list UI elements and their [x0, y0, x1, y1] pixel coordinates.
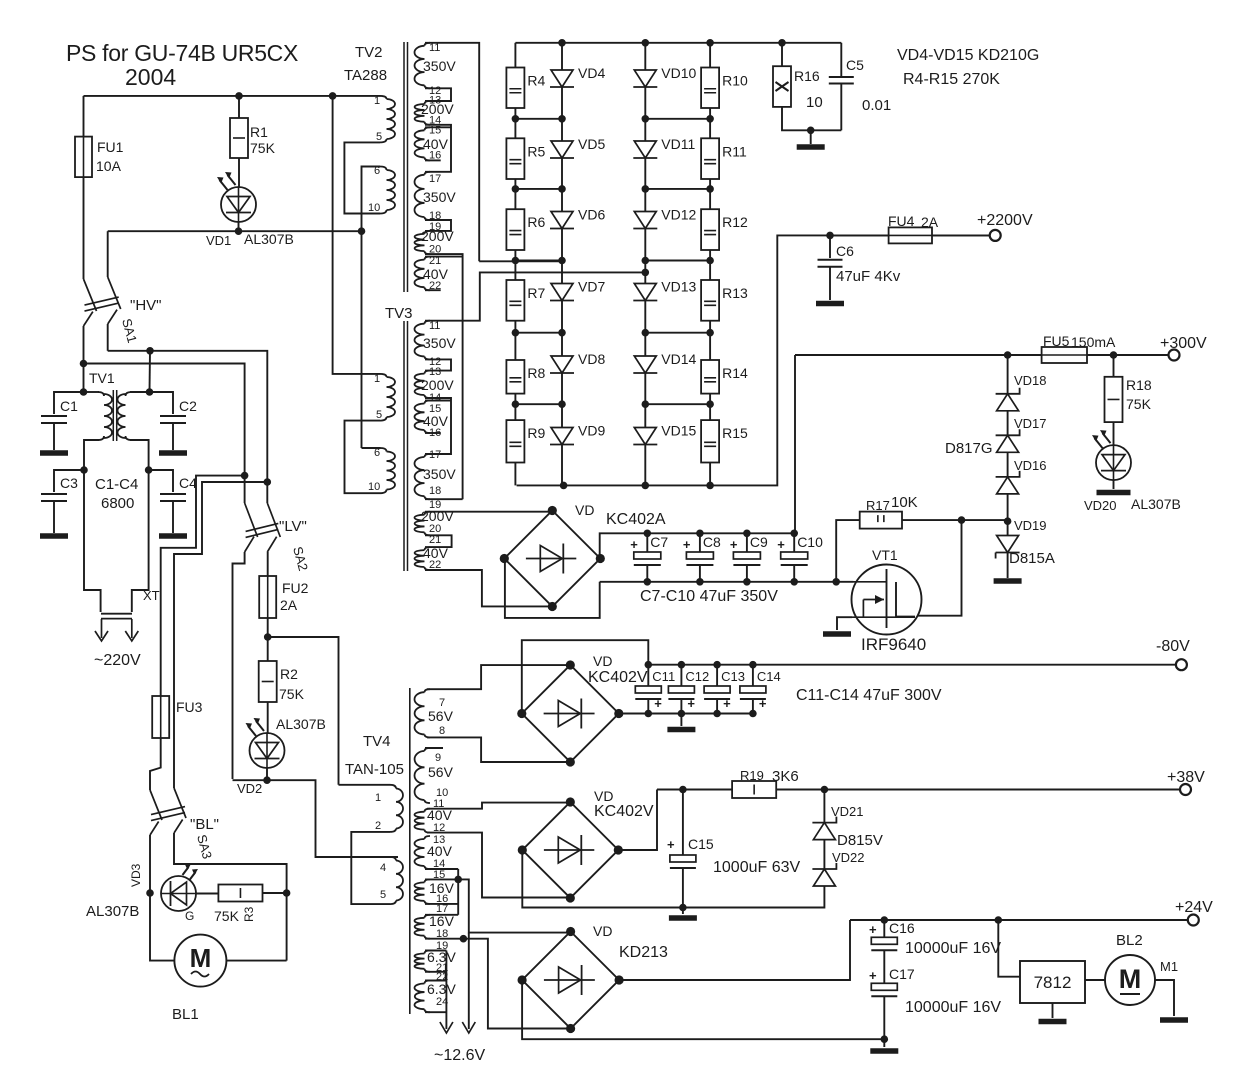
capacitor C8: [686, 552, 713, 565]
wire TV4 pin17: [425, 914, 458, 916]
wire VD3 to R3: [196, 893, 218, 895]
wire TV4 pin15 to KD213: [458, 879, 570, 932]
wire SA2 left stub: [244, 476, 246, 503]
node top bus x=645.3: [642, 39, 650, 47]
svg-text:10K: 10K: [891, 494, 918, 511]
fuse FU5: [1042, 347, 1087, 363]
wire C3 bottom: [53, 501, 55, 533]
diode VD14: [633, 356, 657, 373]
wire C12 top stem: [680, 665, 682, 686]
wire TV1 right winding bottom: [130, 440, 149, 470]
resistor R11: [701, 138, 719, 179]
wire TV4 pin10-11 to bridge: [427, 803, 570, 809]
TV4 winding 11-12 40V: [414, 812, 424, 830]
TV4 primary winding 1-2: [396, 789, 403, 829]
terminal -80V: [1176, 659, 1187, 670]
node R3 right: [283, 889, 291, 897]
node row5 x=645.3: [642, 400, 650, 408]
svg-text:~220V: ~220V: [94, 652, 141, 669]
wire R10 bottom lead: [709, 108, 711, 119]
wire C3 top: [54, 470, 84, 492]
transformer TV1 core: [113, 390, 116, 441]
svg-text:M: M: [1119, 964, 1142, 994]
wire R17 right: [902, 519, 1008, 521]
resistor R5: [506, 138, 524, 179]
wire TV4 pin1: [339, 784, 391, 786]
svg-text:C10: C10: [797, 534, 823, 550]
svg-text:+: +: [759, 696, 767, 711]
resistor R9: [506, 420, 524, 462]
wire FU2 to R2: [267, 618, 269, 661]
TV2 winding 17-18 350V caps: [425, 172, 431, 220]
svg-text:R8: R8: [527, 365, 545, 381]
wire VD11 top lead: [644, 119, 646, 141]
wire C8 top stem: [699, 533, 701, 552]
capacitor C17: [871, 983, 897, 996]
TV3 winding 15-16 40V: [414, 404, 424, 431]
capacitor C4: [160, 494, 186, 501]
wire R7 top lead: [514, 261, 516, 281]
wire VD14 bottom lead: [644, 373, 646, 404]
svg-text:VD10: VD10: [661, 65, 696, 81]
node row4 x=562: [558, 329, 566, 337]
node top bus x=710.1: [706, 39, 714, 47]
resistor R13: [701, 280, 719, 321]
svg-text:TV2: TV2: [355, 44, 383, 61]
wire C16-C17: [883, 950, 885, 983]
diode VD12: [633, 212, 657, 229]
wire VD2 node across: [233, 780, 399, 857]
svg-text:D817G: D817G: [945, 440, 993, 457]
svg-text:R2: R2: [280, 666, 298, 682]
svg-text:TA288: TA288: [344, 67, 387, 84]
node wire2 / VD10 col: [642, 269, 650, 277]
svg-text:C6: C6: [836, 243, 854, 259]
TV2 winding 17-18 350V: [414, 175, 424, 217]
node top bus C7: [644, 530, 652, 538]
wire C11-C14 gnd stem: [680, 714, 682, 727]
transistor VT1 IRF9640: [852, 565, 922, 635]
resistor R7: [506, 280, 524, 321]
svg-text:VD14: VD14: [661, 351, 696, 367]
wire VD6 bottom lead: [561, 229, 563, 261]
svg-text:TV1: TV1: [89, 370, 115, 386]
svg-text:40V: 40V: [427, 807, 453, 823]
svg-text:1: 1: [374, 95, 380, 107]
svg-text:C7-C10 47uF 350V: C7-C10 47uF 350V: [640, 588, 778, 605]
wire R10 top lead: [709, 43, 711, 68]
wire TV4 pin8 to bridge: [427, 737, 570, 762]
node TV1 top-right: [146, 388, 154, 396]
svg-text:VD17: VD17: [1014, 416, 1047, 431]
svg-text:10: 10: [368, 202, 380, 214]
TV3 primary 1-5 end caps: [380, 374, 387, 421]
svg-text:VD11: VD11: [661, 136, 695, 152]
TV3 primary 6-10 end caps: [380, 448, 387, 493]
svg-text:G: G: [185, 909, 194, 923]
TV4 winding 22-24 6.3V: [414, 984, 424, 1010]
wire left drop to FU1: [83, 96, 85, 137]
TV4 winding 9-10 56V: [414, 751, 424, 800]
wire TV4 pin2-5 bracket: [351, 832, 390, 904]
regulator 7812: [1020, 961, 1085, 1003]
node row1 x=710.1: [706, 115, 714, 123]
node TV4 pin18: [460, 935, 468, 943]
svg-text:FU3: FU3: [176, 699, 203, 715]
svg-text:+: +: [723, 696, 731, 711]
TV4 primary 1-2 caps: [390, 785, 396, 832]
wire TV3 pin11: [425, 272, 645, 320]
wire LV feed upper: [161, 476, 245, 620]
TV3 winding 19-20 200V caps: [425, 512, 431, 536]
capacitor C14: [740, 686, 766, 699]
svg-text:11: 11: [429, 42, 440, 54]
wire right line down: [173, 620, 175, 788]
svg-text:+: +: [687, 696, 695, 711]
wire VD11 bottom lead: [644, 158, 646, 189]
node top bus x=562: [558, 39, 566, 47]
wire TV2 pin16 stub: [425, 159, 441, 161]
capacitor C2: [160, 416, 186, 423]
svg-text:C1: C1: [60, 398, 78, 414]
wire TV2 pin21: [425, 256, 463, 258]
wire junction row 1 left pair: [515, 118, 562, 120]
wire FU1 to SA1 left: [83, 177, 85, 279]
node top bus / R1: [235, 92, 243, 100]
svg-text:C4: C4: [179, 475, 197, 491]
node gate feed: [832, 578, 840, 586]
wire VD9 top lead: [561, 404, 563, 427]
resistor R8: [506, 360, 524, 394]
wire R9 top lead: [514, 404, 516, 420]
terminal +300V: [1169, 350, 1180, 361]
svg-text:AL307B: AL307B: [276, 716, 326, 732]
wire TV2 pin11: [425, 43, 479, 261]
wire VD21 top lead: [823, 790, 825, 823]
wire junction row 4 left pair: [515, 332, 562, 334]
wire C7 bottom stem: [646, 565, 648, 582]
svg-text:22: 22: [429, 559, 441, 571]
wire TV1 top-right: [130, 391, 150, 393]
ground under VD20: [1097, 490, 1131, 496]
svg-text:R7: R7: [527, 285, 545, 301]
wire C4 bottom: [172, 501, 174, 533]
wire R14 top lead: [709, 333, 711, 360]
wire R5 bottom lead: [514, 179, 516, 189]
svg-text:VD4: VD4: [578, 65, 605, 81]
TV3 primary winding 1-5: [387, 377, 396, 417]
svg-text:12: 12: [433, 822, 445, 834]
wire VD4 top lead: [561, 43, 563, 70]
bridge rectifier VD KC402A: [500, 506, 605, 611]
wire source to gnd: [837, 617, 852, 630]
capacitor C3: [41, 494, 67, 501]
svg-text:1: 1: [374, 373, 380, 385]
wire TV1 left winding bottom: [84, 440, 99, 470]
wire 7812 gnd stem: [1052, 1003, 1054, 1018]
wire TV4 pin16: [425, 903, 458, 905]
svg-text:200V: 200V: [421, 377, 454, 393]
ground under C6: [816, 301, 844, 307]
wire TV4 pin21-22: [425, 972, 446, 981]
wire VD2 to junction: [266, 768, 268, 780]
svg-text:10A: 10A: [96, 158, 122, 174]
svg-text:C5: C5: [846, 57, 864, 73]
fuse FU4: [889, 227, 932, 243]
wire junction row 4 right pair: [645, 332, 710, 334]
svg-text:VD21: VD21: [831, 804, 864, 819]
svg-text:R17: R17: [866, 498, 890, 513]
diode VD6: [550, 212, 574, 229]
TV3 winding 17-18 350V: [414, 457, 424, 496]
wire SA2 right pole down: [267, 552, 269, 576]
svg-text:350V: 350V: [423, 189, 456, 205]
svg-text:BL1: BL1: [172, 1006, 199, 1023]
wire VD6 top lead: [561, 189, 563, 212]
wire C12 bottom stem: [680, 699, 682, 714]
wire R9 bottom lead: [514, 463, 516, 486]
svg-text:XT: XT: [143, 588, 160, 603]
wire TV3 pin14-15: [425, 398, 451, 454]
svg-text:C17: C17: [889, 966, 915, 982]
svg-text:11: 11: [429, 320, 440, 332]
wire C15 bottom stem: [682, 868, 684, 908]
TV2 primary 6-10 end caps: [380, 167, 387, 214]
wire C7 top stem: [646, 533, 648, 552]
svg-text:VD13: VD13: [661, 279, 696, 295]
svg-text:20: 20: [429, 244, 441, 256]
wire C6 bottom: [829, 267, 831, 300]
TV2 winding 21-22 40V: [415, 260, 425, 288]
wire TV4 pin19: [425, 950, 446, 952]
TV2 primary winding 6-10: [387, 170, 396, 210]
node C15 bottom: [679, 904, 687, 912]
svg-text:350V: 350V: [423, 466, 456, 482]
wire C16 stem: [883, 920, 885, 937]
svg-text:VD: VD: [593, 923, 612, 939]
svg-text:C1-C4: C1-C4: [95, 476, 138, 493]
svg-text:6.3V: 6.3V: [427, 981, 456, 997]
wire R11 bottom lead: [709, 179, 711, 189]
wire TV2 pin15: [425, 126, 451, 128]
svg-text:+: +: [630, 537, 638, 552]
node TV4 pin15: [454, 876, 462, 884]
svg-text:VD: VD: [593, 653, 612, 669]
svg-text:+: +: [654, 696, 662, 711]
svg-text:150mA: 150mA: [1071, 334, 1116, 350]
TV4 winding 9-10 56V caps: [425, 748, 431, 803]
node rail 7812: [995, 916, 1003, 924]
svg-text:R5: R5: [527, 143, 545, 159]
wire C5 column: [840, 43, 842, 76]
svg-text:C8: C8: [703, 534, 721, 550]
wire 12.6V right drop: [468, 933, 470, 1029]
TV3 winding 15-16 40V caps: [425, 401, 431, 434]
wire R4 bottom lead: [514, 108, 516, 119]
svg-text:+: +: [869, 922, 877, 937]
resistor R15: [701, 420, 719, 462]
TV4 primary 4-5 caps: [390, 857, 396, 904]
node VD19 gate: [1004, 517, 1012, 525]
wire TV2 pin20-21: [425, 254, 463, 321]
wire junction row 1 right pair: [645, 118, 710, 120]
TV3 winding 17-18 350V caps: [425, 454, 431, 499]
wire R16 bottom lead: [782, 107, 841, 130]
wire C11 bottom stem: [647, 699, 649, 714]
capacitor C16: [871, 937, 897, 950]
wire junction row 5 right pair: [645, 403, 710, 405]
wire R18 top lead: [1113, 355, 1115, 377]
wire C1 bottom: [53, 423, 55, 450]
node bottom C13: [713, 710, 721, 718]
arrow mains left: [95, 619, 108, 641]
wire +300V riser: [794, 355, 796, 533]
node top bus C9: [743, 530, 751, 538]
diode VD8: [550, 356, 574, 373]
wire C11 top stem: [647, 665, 649, 686]
resistor R10: [701, 68, 719, 109]
wire R15 bottom lead: [709, 463, 711, 486]
node row3 x=645.3: [642, 257, 650, 265]
svg-text:56V: 56V: [428, 708, 454, 724]
wire line A: [108, 351, 268, 482]
node C6: [826, 232, 834, 240]
wire TV2 pin6 line down to TV3: [361, 231, 363, 448]
TV3 winding 11-12 350V caps: [425, 321, 431, 360]
wire gate riser: [836, 520, 860, 582]
wire junction row 2 left pair: [515, 188, 562, 190]
svg-text:R12: R12: [722, 214, 748, 230]
bridge rectifier VD KD213: [518, 927, 624, 1033]
wire R11 top lead: [709, 119, 711, 139]
capacitor C7: [634, 552, 661, 565]
wire TV4 pin15 wire: [425, 878, 458, 880]
arrow 12.6V right: [462, 1022, 475, 1033]
wire VD9 bottom lead: [561, 445, 563, 486]
svg-text:R10: R10: [722, 73, 748, 89]
wire VD8 top lead: [561, 333, 563, 356]
wire TV3 pin1 top: [333, 96, 381, 374]
svg-text:C2: C2: [179, 398, 197, 414]
node row2 x=710.1: [706, 185, 714, 193]
TV2 winding 11-12 350V caps: [425, 43, 431, 89]
chassis bar under C1: [40, 450, 68, 456]
wire KC402V-1 plus: [619, 713, 754, 715]
wire TV4 pin7 to bridge: [427, 665, 570, 689]
svg-text:200V: 200V: [421, 228, 454, 244]
node row4 x=645.3: [642, 329, 650, 337]
chassis bar under C3: [40, 533, 68, 539]
zener VD16: [996, 471, 1020, 494]
node bottom bus VD9: [560, 482, 568, 490]
terminal +38V: [1180, 784, 1191, 795]
svg-text:VD19: VD19: [1014, 518, 1047, 533]
svg-text:+: +: [683, 537, 691, 552]
node LV right: [264, 478, 272, 486]
node row1 x=562: [558, 115, 566, 123]
resistor R16 X mark: [776, 82, 789, 91]
svg-text:VD16: VD16: [1014, 458, 1047, 473]
svg-text:75K: 75K: [250, 140, 276, 156]
chassis bar under C2: [159, 450, 187, 456]
wire VD18-VD17: [1007, 411, 1009, 436]
wire C10 top stem: [793, 533, 795, 552]
wire BL1 right: [226, 960, 286, 962]
wire VD1 to bus2: [238, 222, 240, 231]
svg-text:VD9: VD9: [578, 423, 605, 439]
svg-text:R3: R3: [242, 906, 256, 922]
svg-text:2A: 2A: [280, 597, 298, 613]
svg-text:C9: C9: [750, 534, 768, 550]
wire VD15 bottom lead: [644, 445, 646, 486]
TV3 winding 21-22 40V: [414, 550, 424, 567]
TV2 winding 15-16 40V caps: [425, 127, 431, 160]
svg-text:5: 5: [376, 409, 382, 421]
wire TV2 pin6: [362, 167, 381, 232]
svg-text:TV4: TV4: [363, 733, 391, 750]
wire +38V riser: [618, 790, 657, 851]
wire 12.6V left drop: [445, 951, 447, 1030]
svg-text:R1: R1: [250, 124, 268, 140]
wire C15 stem: [682, 790, 684, 856]
wire KC402A minus: [505, 559, 600, 618]
node row1 x=645.3: [642, 115, 650, 123]
svg-text:C14: C14: [757, 669, 781, 684]
wire C7-C10 bottom bus: [600, 581, 854, 583]
svg-text:9: 9: [435, 752, 441, 764]
diode VD11: [633, 141, 657, 158]
LED VD1 VD1: [217, 172, 256, 222]
node row2 x=645.3: [642, 185, 650, 193]
wire C6 stem: [829, 235, 831, 258]
switch SA2: [245, 503, 281, 552]
wire C15 gnd stem: [682, 908, 684, 915]
wire VD14 top lead: [644, 333, 646, 356]
capacitor C10: [781, 552, 808, 565]
wire C4 top: [149, 470, 173, 492]
svg-text:M: M: [190, 943, 212, 973]
wire TV3 pin18: [425, 498, 463, 500]
wire VD7 bottom lead: [561, 301, 563, 333]
svg-text:R9: R9: [527, 425, 545, 441]
wire TV4 pin14: [425, 868, 458, 870]
svg-text:C15: C15: [688, 836, 714, 852]
svg-text:16V: 16V: [429, 913, 455, 929]
transformer TV3 core: [404, 321, 408, 571]
wire junction row 3 right pair: [645, 260, 710, 262]
wire KD213 minus: [522, 980, 884, 1039]
wire 7812 to BL2: [1085, 979, 1105, 981]
wire TV3 pin5 bracket: [345, 421, 381, 494]
svg-text:75K: 75K: [1126, 396, 1152, 412]
wire VD21-VD22: [823, 840, 825, 869]
wire R12 bottom lead: [709, 250, 711, 261]
resistor R16: [773, 66, 791, 107]
transformer TV1 right winding caps: [126, 392, 132, 440]
node rail C16: [881, 916, 889, 924]
svg-text:+300V: +300V: [1160, 335, 1207, 352]
svg-text:+24V: +24V: [1175, 899, 1213, 916]
bridge rectifier VD KC402V-2: [518, 797, 623, 902]
wire top bus: [84, 95, 381, 97]
TV3 primary winding 6-10: [387, 452, 396, 490]
svg-text:350V: 350V: [423, 335, 456, 351]
svg-text:10000uF 16V: 10000uF 16V: [905, 999, 1001, 1016]
svg-text:22: 22: [429, 280, 441, 292]
motor BL1: [174, 935, 226, 987]
node bottom bus C7: [644, 578, 652, 586]
wire R8 bottom lead: [514, 394, 516, 405]
